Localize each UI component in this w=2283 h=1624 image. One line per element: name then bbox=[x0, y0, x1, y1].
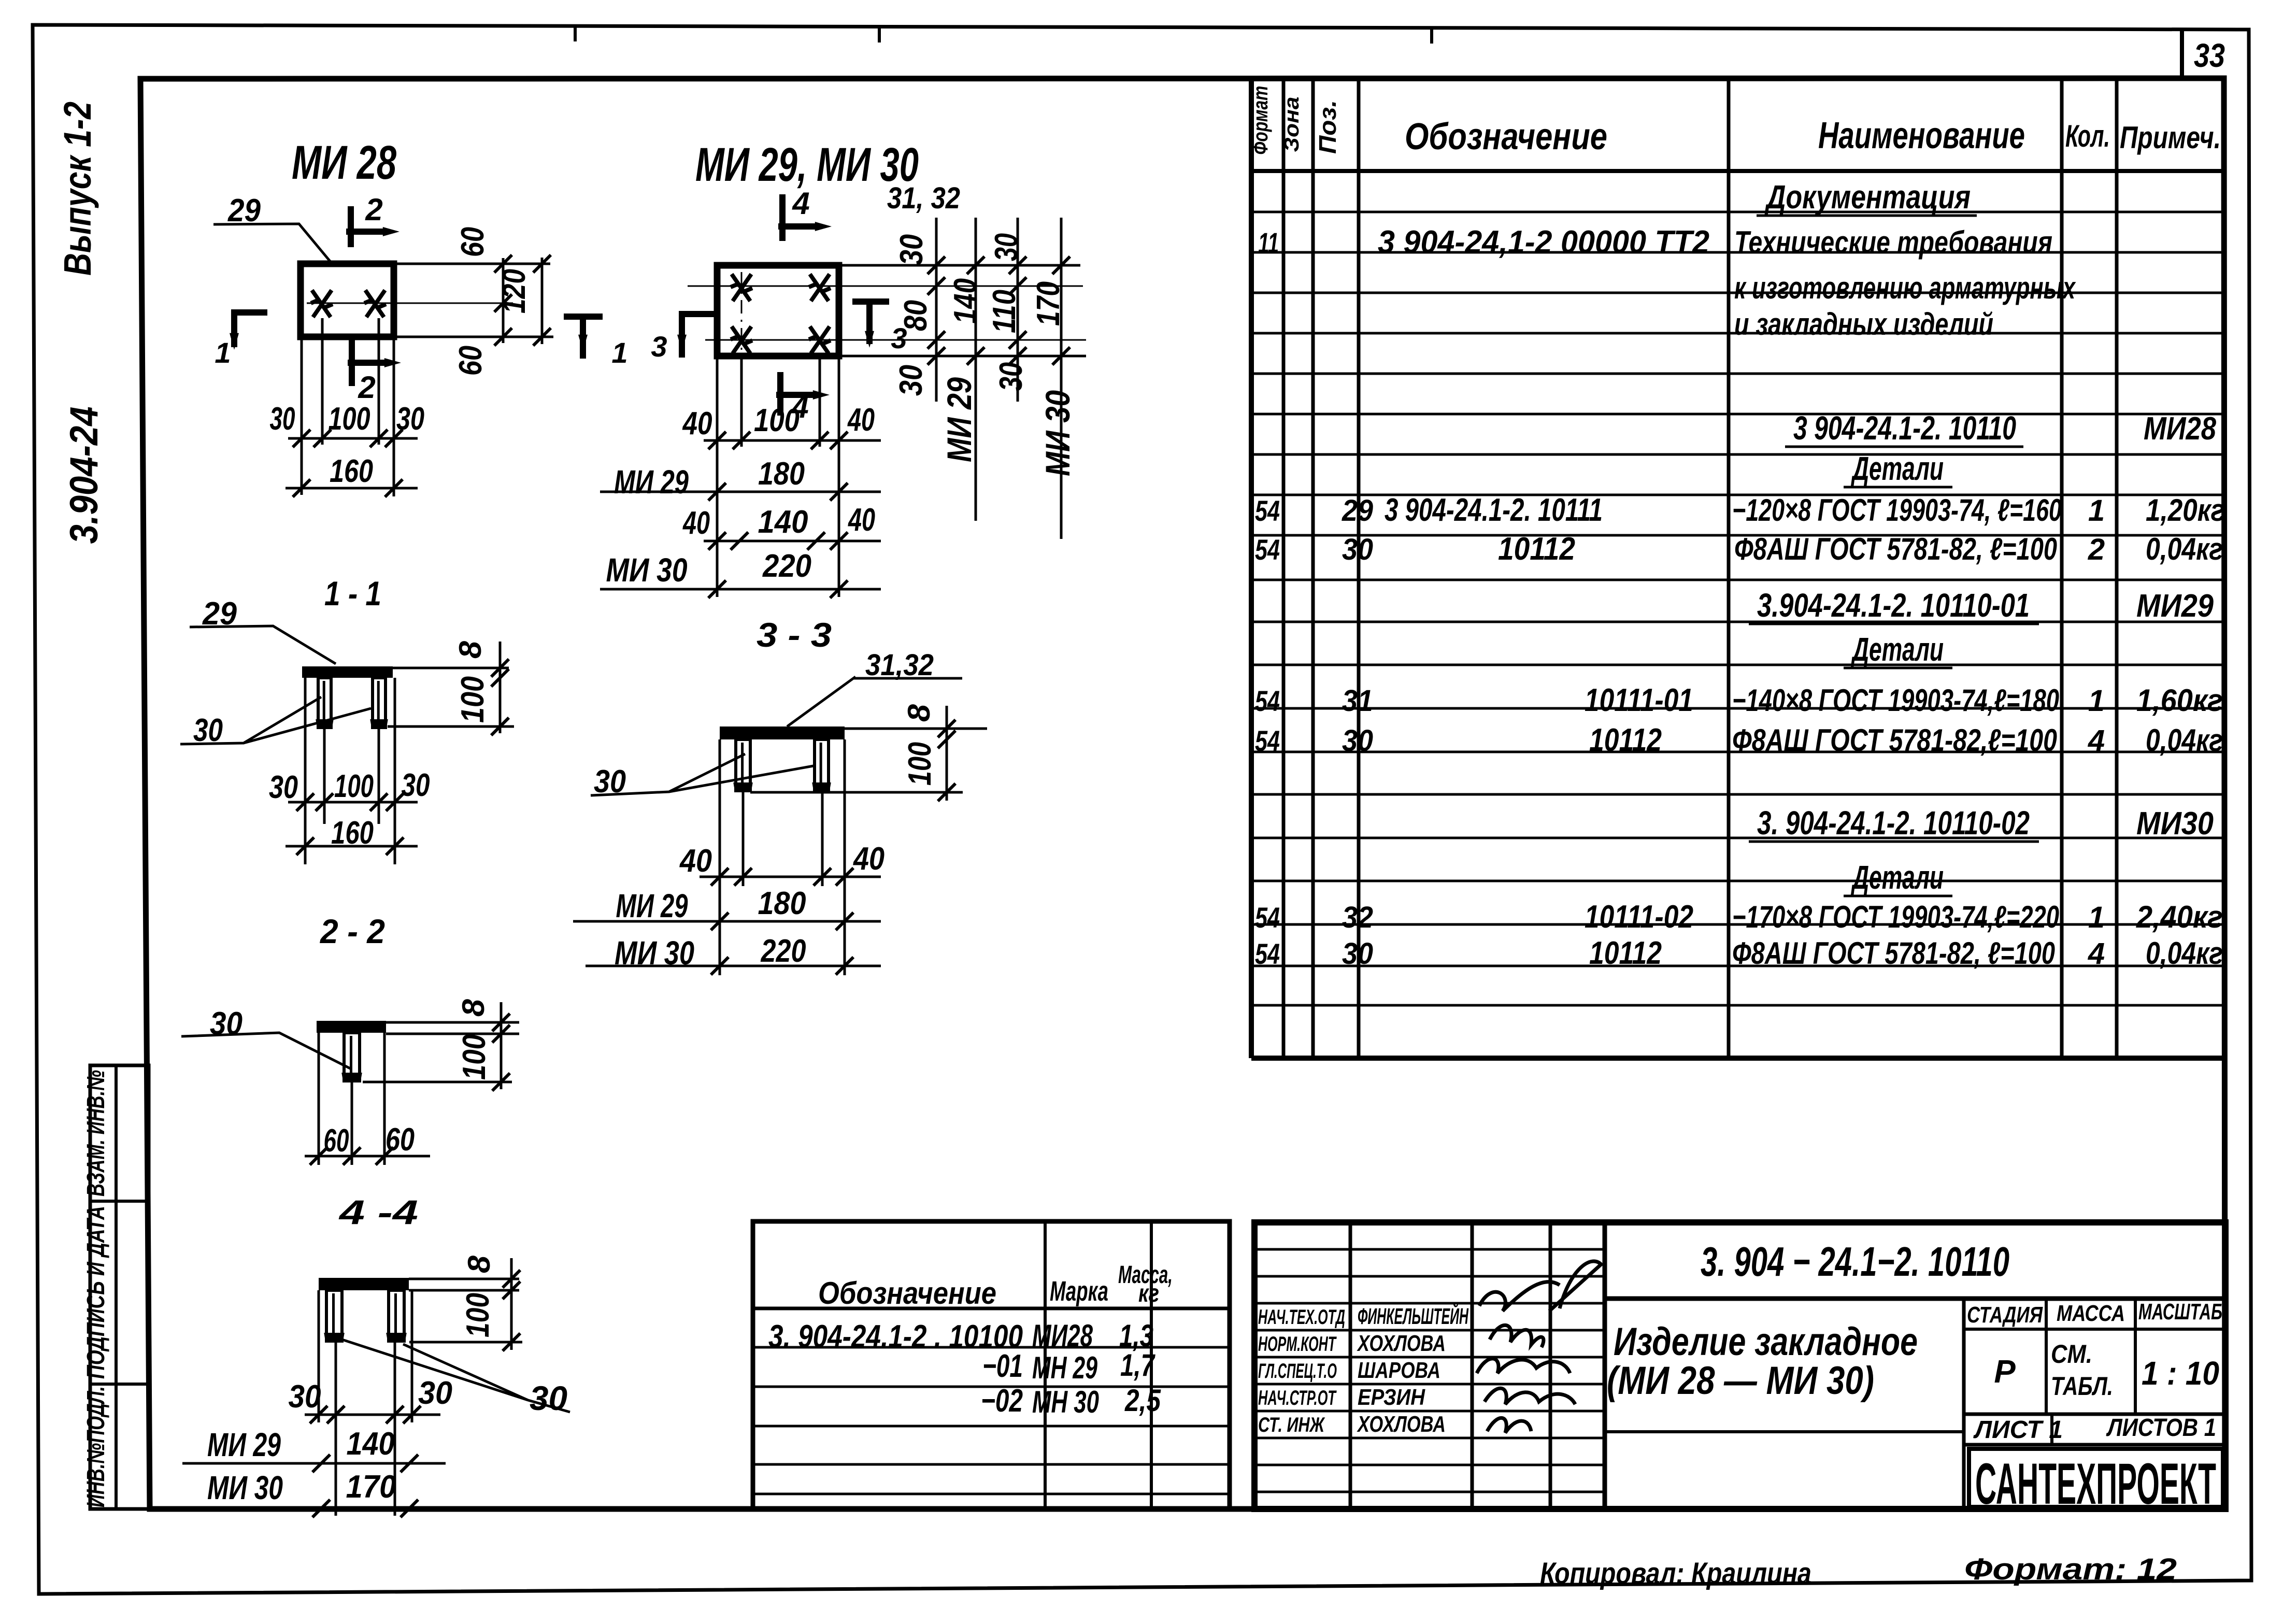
svg-text:2: 2 bbox=[358, 370, 375, 405]
1-1 left leg bbox=[318, 678, 331, 728]
4-4 leg bottom extension bbox=[409, 1341, 522, 1344]
left stamp boxes bbox=[90, 1065, 149, 1509]
section marker 1 left bbox=[231, 310, 237, 347]
svg-text:60: 60 bbox=[324, 1123, 349, 1159]
3-3 right leg bbox=[815, 739, 829, 791]
svg-text:30: 30 bbox=[1342, 724, 1373, 758]
svg-text:МИ29: МИ29 bbox=[2136, 588, 2214, 624]
svg-text:30: 30 bbox=[418, 1375, 452, 1411]
svg-text:10112: 10112 bbox=[1589, 722, 1662, 758]
svg-text:Формат: Формат bbox=[1249, 86, 1272, 155]
МИ29 anchor centerline vertical dashed bbox=[741, 272, 743, 363]
svg-text:МИ 30: МИ 30 bbox=[615, 934, 694, 972]
МИ28 dim 120 bbox=[541, 258, 544, 344]
svg-text:30: 30 bbox=[894, 234, 930, 265]
svg-text:Ф8АШ ГОСТ 5781-82, ℓ=100: Ф8АШ ГОСТ 5781-82, ℓ=100 bbox=[1734, 532, 2057, 566]
svg-text:МИ28: МИ28 bbox=[2144, 411, 2216, 447]
svg-text:30: 30 bbox=[989, 233, 1024, 261]
svg-text:Детали: Детали bbox=[1851, 859, 1944, 896]
svg-text:8: 8 bbox=[902, 704, 936, 722]
svg-text:Р: Р bbox=[1994, 1354, 2016, 1390]
title block verticals left part bbox=[1349, 1222, 1352, 1509]
svg-text:54: 54 bbox=[1255, 494, 1280, 527]
title block stadia columns bbox=[1962, 1299, 1966, 1509]
svg-text:Обозначение: Обозначение bbox=[818, 1276, 996, 1310]
svg-text:100: 100 bbox=[460, 1293, 496, 1337]
svg-text:−170×8 ГОСТ 19903-74,ℓ=220: −170×8 ГОСТ 19903-74,ℓ=220 bbox=[1732, 900, 2059, 934]
svg-text:НАЧ.ТЕХ.ОТД: НАЧ.ТЕХ.ОТД bbox=[1258, 1306, 1345, 1329]
svg-text:2,40кг: 2,40кг bbox=[2136, 900, 2223, 934]
1-1 dim row 160 bbox=[286, 845, 418, 848]
svg-text:СМ.: СМ. bbox=[2051, 1340, 2092, 1369]
svg-text:САНТЕХПРОЕКТ: САНТЕХПРОЕКТ bbox=[1975, 1451, 2216, 1516]
svg-text:40: 40 bbox=[682, 406, 712, 441]
sheet number box 33 bbox=[2180, 30, 2184, 79]
svg-text:100: 100 bbox=[902, 742, 938, 786]
svg-text:ФИНКЕЛЬШТЕЙН: ФИНКЕЛЬШТЕЙН bbox=[1358, 1303, 1469, 1329]
svg-text:МИ28: МИ28 bbox=[1032, 1318, 1093, 1353]
svg-text:Изделие закладное: Изделие закладное bbox=[1614, 1320, 1918, 1364]
МИ28 dim row 160 bbox=[286, 487, 418, 490]
title block list row bbox=[1964, 1413, 2225, 1416]
1-1 right leg bbox=[373, 678, 386, 728]
svg-text:30: 30 bbox=[893, 365, 929, 396]
section marker 4 bottom bbox=[777, 372, 783, 416]
2-2 leg bottom extension bbox=[363, 1081, 512, 1084]
4-4 dim 8 and 100 bbox=[510, 1258, 513, 1350]
svg-text:ГЛ.СПЕЦ.Т.О: ГЛ.СПЕЦ.Т.О bbox=[1258, 1360, 1337, 1383]
svg-text:4: 4 bbox=[792, 186, 809, 221]
МИ28 centerline bbox=[307, 303, 513, 304]
svg-text:2 - 2: 2 - 2 bbox=[319, 912, 385, 950]
svg-text:30: 30 bbox=[1342, 937, 1373, 971]
svg-text:140: 140 bbox=[948, 278, 983, 324]
svg-text:4 -4: 4 -4 bbox=[338, 1193, 418, 1231]
svg-text:40: 40 bbox=[682, 505, 710, 541]
1-1 dim row 30-100-30 bbox=[288, 801, 418, 804]
svg-text:Детали: Детали bbox=[1851, 450, 1944, 487]
svg-text:Выпуск 1-2: Выпуск 1-2 bbox=[56, 102, 99, 276]
3-3 dim row 40-40 bbox=[700, 876, 881, 878]
svg-text:3: 3 bbox=[651, 330, 667, 363]
1-1 plate top extension bbox=[393, 667, 509, 669]
svg-text:8: 8 bbox=[453, 640, 488, 659]
svg-text:1: 1 bbox=[215, 336, 231, 369]
svg-text:31,32: 31,32 bbox=[865, 648, 934, 682]
svg-text:30: 30 bbox=[270, 401, 295, 437]
svg-text:3. 904-24.1-2. 10110-02: 3. 904-24.1-2. 10110-02 bbox=[1757, 804, 2030, 842]
svg-text:МН 30: МН 30 bbox=[1032, 1385, 1099, 1419]
2-2 leg bbox=[344, 1033, 360, 1081]
svg-text:30: 30 bbox=[1342, 533, 1373, 566]
svg-text:8: 8 bbox=[456, 999, 491, 1017]
4-4 plate bbox=[319, 1278, 409, 1290]
svg-text:54: 54 bbox=[1255, 901, 1280, 934]
svg-text:(МИ 28 — МИ 30): (МИ 28 — МИ 30) bbox=[1607, 1359, 1874, 1403]
МИ29 centerline lower bbox=[705, 339, 1086, 341]
2-2 dim 8 and 100 bbox=[500, 1002, 503, 1089]
svg-text:Кол.: Кол. bbox=[2065, 119, 2110, 153]
svg-text:3 904-24.1-2. 10110: 3 904-24.1-2. 10110 bbox=[1793, 409, 2016, 447]
svg-text:МИ 29: МИ 29 bbox=[207, 1426, 281, 1463]
fold marks on top border bbox=[574, 25, 577, 41]
svg-text:3. 904 − 24.1−2. 10110: 3. 904 − 24.1−2. 10110 bbox=[1701, 1238, 2009, 1285]
svg-text:МИ 28: МИ 28 bbox=[292, 136, 397, 189]
МИ28 anchor symbol left bbox=[311, 290, 333, 317]
1-1 projections below bbox=[304, 678, 307, 864]
svg-text:40: 40 bbox=[847, 502, 875, 538]
svg-text:−02: −02 bbox=[981, 1383, 1023, 1419]
section marker 2 top bbox=[348, 206, 354, 247]
svg-text:30: 30 bbox=[530, 1379, 567, 1417]
4-4 left leg bbox=[326, 1290, 342, 1341]
svg-text:1: 1 bbox=[611, 336, 627, 369]
svg-text:Детали: Детали bbox=[1851, 631, 1944, 668]
svg-text:1,20кг: 1,20кг bbox=[2146, 493, 2225, 528]
section marker 1 right bbox=[580, 314, 586, 359]
section marker 4 top bbox=[779, 194, 786, 241]
spec table grid bbox=[1249, 78, 1254, 1058]
svg-text:8: 8 bbox=[462, 1255, 496, 1273]
svg-text:170: 170 bbox=[1031, 281, 1066, 326]
4-4 dim row МИ29 140 bbox=[182, 1462, 446, 1465]
svg-text:ТАБЛ.: ТАБЛ. bbox=[2051, 1372, 2113, 1401]
2-2 projections below bbox=[318, 1033, 320, 1165]
svg-text:Формат: 12: Формат: 12 bbox=[1964, 1552, 2177, 1586]
svg-text:140: 140 bbox=[758, 504, 808, 540]
svg-text:МИ 30: МИ 30 bbox=[1038, 390, 1077, 476]
svg-text:120: 120 bbox=[496, 269, 532, 314]
svg-text:−140×8 ГОСТ 19903-74,ℓ=180: −140×8 ГОСТ 19903-74,ℓ=180 bbox=[1732, 683, 2059, 718]
svg-text:170: 170 bbox=[346, 1469, 396, 1505]
svg-text:10111-02: 10111-02 bbox=[1585, 899, 1693, 935]
svg-text:180: 180 bbox=[758, 456, 805, 492]
3-3 plate top extension bbox=[845, 728, 987, 730]
МИ29 centerline upper bbox=[688, 286, 1083, 287]
1-1 dim 8 and 100 bbox=[499, 642, 502, 733]
svg-text:100: 100 bbox=[455, 676, 491, 723]
section marker 2 bottom bbox=[349, 338, 355, 386]
svg-text:31, 32: 31, 32 bbox=[887, 181, 960, 215]
svg-text:4: 4 bbox=[2088, 724, 2105, 758]
МИ29 dim row 180 bbox=[600, 491, 881, 493]
svg-text:ВЗАМ. ИНВ.№: ВЗАМ. ИНВ.№ bbox=[82, 1070, 110, 1196]
title block horizontals left part bbox=[1254, 1248, 1605, 1251]
4-4 projections below bbox=[318, 1290, 320, 1422]
section marker 3 right bbox=[852, 298, 889, 305]
4-4 plate extensions bbox=[409, 1278, 519, 1280]
МИ28 dim row 30-100-30 bbox=[288, 437, 418, 440]
3-3 plate bbox=[720, 726, 845, 739]
svg-text:0,04кг: 0,04кг bbox=[2146, 936, 2223, 971]
svg-text:Ф8АШ ГОСТ 5781-82,ℓ=100: Ф8АШ ГОСТ 5781-82,ℓ=100 bbox=[1732, 723, 2057, 758]
svg-text:ХОХЛОВА: ХОХЛОВА bbox=[1357, 1412, 1446, 1437]
svg-text:140: 140 bbox=[347, 1426, 395, 1462]
svg-text:10112: 10112 bbox=[1498, 531, 1575, 567]
3-3 dim row МИ29 180 bbox=[573, 920, 881, 923]
МИ30 dim row 40-140-40 bbox=[704, 540, 881, 543]
svg-text:МИ30: МИ30 bbox=[2136, 806, 2214, 842]
svg-text:180: 180 bbox=[758, 886, 806, 921]
svg-text:110: 110 bbox=[987, 290, 1022, 333]
svg-text:4: 4 bbox=[2088, 937, 2105, 971]
svg-text:40: 40 bbox=[847, 402, 875, 438]
svg-text:3 904-24.1-2. 10111: 3 904-24.1-2. 10111 bbox=[1385, 492, 1603, 528]
МИ29 plate rectangle bbox=[717, 265, 839, 356]
svg-text:30: 30 bbox=[396, 401, 424, 437]
МИ30 dim line C 30-110-30 bbox=[1017, 218, 1019, 402]
svg-text:1,60кг: 1,60кг bbox=[2136, 683, 2223, 718]
svg-text:СТАДИЯ: СТАДИЯ bbox=[1967, 1302, 2043, 1328]
1-1 leg bottom extension bbox=[388, 725, 514, 728]
2-2 plate extensions bbox=[386, 1021, 519, 1024]
svg-text:ИНВ.№ПОДЛ.: ИНВ.№ПОДЛ. bbox=[82, 1386, 110, 1507]
svg-text:Марка: Марка bbox=[1050, 1276, 1108, 1307]
МИ28 anchor symbol right bbox=[364, 290, 386, 317]
svg-text:1 - 1: 1 - 1 bbox=[324, 574, 381, 612]
svg-text:МИ 30: МИ 30 bbox=[606, 551, 688, 589]
svg-text:МИ 29: МИ 29 bbox=[616, 887, 688, 924]
svg-text:СТ. ИНЖ: СТ. ИНЖ bbox=[1258, 1414, 1325, 1436]
svg-text:2: 2 bbox=[365, 192, 382, 227]
svg-text:10111-01: 10111-01 bbox=[1585, 682, 1693, 718]
svg-text:Примеч.: Примеч. bbox=[2120, 120, 2221, 155]
svg-text:Ф8АШ ГОСТ 5781-82, ℓ=100: Ф8АШ ГОСТ 5781-82, ℓ=100 bbox=[1732, 936, 2055, 971]
svg-text:2: 2 bbox=[2088, 533, 2105, 566]
4-4 dim row МИ30 170 bbox=[182, 1507, 446, 1510]
svg-text:54: 54 bbox=[1255, 685, 1280, 717]
svg-text:0,04кг: 0,04кг bbox=[2146, 723, 2223, 758]
svg-text:100: 100 bbox=[329, 401, 370, 437]
svg-text:40: 40 bbox=[679, 843, 712, 879]
svg-text:30: 30 bbox=[402, 767, 430, 803]
svg-text:Копировал: Краилина: Копировал: Краилина bbox=[1540, 1557, 1811, 1590]
svg-text:100: 100 bbox=[334, 768, 374, 804]
МИ29 dim line A 30-80-30 bbox=[935, 218, 938, 402]
svg-text:МИ 29: МИ 29 bbox=[614, 463, 689, 501]
1-1 plate bbox=[302, 666, 393, 678]
svg-text:ЕРЗИН: ЕРЗИН bbox=[1358, 1385, 1425, 1410]
svg-text:1: 1 bbox=[2088, 494, 2105, 528]
svg-text:МИ 29, МИ 30: МИ 29, МИ 30 bbox=[695, 138, 919, 191]
svg-text:1: 1 bbox=[2088, 684, 2105, 718]
svg-text:кг: кг bbox=[1138, 1280, 1159, 1307]
3-3 projections below bbox=[719, 739, 721, 975]
svg-text:3 904-24,1-2 00000 ТТ2: 3 904-24,1-2 00000 ТТ2 bbox=[1378, 224, 1709, 260]
МИ29 anchor symbols bbox=[731, 274, 752, 301]
svg-text:220: 220 bbox=[762, 548, 811, 584]
svg-text:и закладных изделий: и закладных изделий bbox=[1734, 307, 1993, 341]
svg-text:80: 80 bbox=[898, 300, 934, 331]
2-2 dim row 60-60 bbox=[305, 1155, 430, 1158]
svg-text:54: 54 bbox=[1255, 533, 1280, 566]
svg-text:220: 220 bbox=[761, 933, 806, 969]
svg-text:Документация: Документация bbox=[1764, 178, 1971, 216]
svg-text:100: 100 bbox=[754, 403, 800, 438]
4-4 dim row 30-30 bbox=[305, 1414, 440, 1416]
svg-text:54: 54 bbox=[1255, 724, 1280, 757]
МИ28 projection lines bbox=[301, 337, 303, 495]
svg-text:10112: 10112 bbox=[1589, 935, 1662, 971]
marks table grid bbox=[753, 1221, 1230, 1509]
МИ28 plate rectangle bbox=[301, 264, 394, 337]
svg-text:НОРМ.КОНТ: НОРМ.КОНТ bbox=[1258, 1333, 1337, 1356]
svg-text:ЛИСТ 1: ЛИСТ 1 bbox=[1973, 1416, 2063, 1444]
svg-text:60: 60 bbox=[453, 346, 489, 376]
svg-text:Зона: Зона bbox=[1280, 97, 1303, 152]
svg-text:11: 11 bbox=[1258, 226, 1279, 259]
svg-text:32: 32 bbox=[1342, 901, 1373, 934]
svg-text:30: 30 bbox=[269, 770, 298, 805]
svg-text:Обозначение: Обозначение bbox=[1405, 116, 1607, 158]
svg-text:1 : 10: 1 : 10 bbox=[2142, 1355, 2219, 1392]
МИ28 dim 60 top bbox=[502, 258, 505, 311]
МИ29 projection lines below bbox=[716, 356, 719, 597]
svg-text:3.904-24: 3.904-24 bbox=[62, 407, 106, 544]
svg-text:1: 1 bbox=[2088, 901, 2105, 934]
svg-text:33: 33 bbox=[2194, 37, 2225, 74]
2-2 plate bbox=[317, 1021, 386, 1033]
svg-text:1,7: 1,7 bbox=[1120, 1348, 1155, 1383]
svg-text:Поз.: Поз. bbox=[1314, 100, 1341, 154]
svg-text:Технические требования: Технические требования bbox=[1734, 225, 2052, 260]
signatures bbox=[1477, 1261, 1601, 1433]
title block name cell bbox=[1605, 1430, 1964, 1433]
3-3 dim row МИ30 220 bbox=[586, 965, 881, 967]
title block outer bbox=[1254, 1222, 2225, 1509]
svg-text:31: 31 bbox=[1342, 684, 1373, 718]
svg-text:160: 160 bbox=[331, 815, 374, 851]
svg-text:3 - 3: 3 - 3 bbox=[757, 616, 832, 654]
svg-text:30: 30 bbox=[289, 1379, 321, 1415]
svg-text:2,5: 2,5 bbox=[1124, 1383, 1161, 1418]
svg-text:МН 29: МН 29 bbox=[1032, 1350, 1097, 1385]
svg-text:ШАРОВА: ШАРОВА bbox=[1358, 1358, 1440, 1383]
title block designation cell bbox=[1605, 1297, 2225, 1301]
МИ29 dim line B 140 bbox=[975, 218, 977, 521]
svg-text:Наименование: Наименование bbox=[1818, 115, 2025, 156]
svg-text:60: 60 bbox=[455, 227, 491, 257]
svg-text:30: 30 bbox=[993, 362, 1029, 391]
svg-text:МАССА: МАССА bbox=[2057, 1301, 2125, 1326]
svg-text:29: 29 bbox=[1342, 494, 1373, 528]
svg-text:ПОДПИСЬ И ДАТА: ПОДПИСЬ И ДАТА bbox=[82, 1206, 110, 1379]
МИ30 dim line D 170 bbox=[1060, 218, 1063, 539]
3-3 leg bottom extension bbox=[750, 791, 963, 794]
svg-text:−120×8 ГОСТ 19903-74, ℓ=160: −120×8 ГОСТ 19903-74, ℓ=160 bbox=[1732, 493, 2062, 528]
4-4 right leg bbox=[389, 1290, 404, 1341]
svg-text:МИ 29: МИ 29 bbox=[940, 377, 978, 462]
МИ28 bottom edge extension bbox=[395, 336, 553, 338]
3-3 dim 8 and 100 bbox=[946, 706, 948, 801]
svg-text:МИ 30: МИ 30 bbox=[207, 1469, 283, 1506]
МИ29 dim row 40-100-40 bbox=[704, 439, 881, 442]
svg-text:100: 100 bbox=[456, 1034, 492, 1080]
svg-text:60: 60 bbox=[386, 1122, 415, 1158]
svg-text:0,04кг: 0,04кг bbox=[2146, 532, 2223, 566]
3-3 left leg bbox=[736, 739, 750, 791]
МИ28 top edge extension bbox=[395, 263, 550, 265]
МИ29 bottom edge extension bbox=[840, 355, 1086, 358]
МИ28 dim 60 bottom bbox=[502, 301, 505, 343]
title block logo box САНТЕХПРОЕКТ bbox=[1964, 1443, 2225, 1447]
МИ29 top edge extension bbox=[840, 264, 1080, 267]
svg-text:НАЧ.СТР.ОТ: НАЧ.СТР.ОТ bbox=[1258, 1387, 1337, 1409]
svg-text:40: 40 bbox=[852, 841, 884, 877]
svg-text:ЛИСТОВ 1: ЛИСТОВ 1 bbox=[2106, 1414, 2216, 1442]
svg-text:160: 160 bbox=[330, 453, 373, 489]
svg-text:ХОХЛОВА: ХОХЛОВА bbox=[1357, 1331, 1446, 1356]
svg-text:к изготовлению арматурных: к изготовлению арматурных bbox=[1734, 270, 2076, 305]
svg-text:3.904-24.1-2. 10110-01: 3.904-24.1-2. 10110-01 bbox=[1757, 587, 2030, 624]
svg-text:54: 54 bbox=[1255, 937, 1280, 970]
МИ30 dim row 220 bbox=[600, 588, 881, 591]
svg-text:−01: −01 bbox=[982, 1348, 1023, 1384]
svg-text:МАСШТАБ: МАСШТАБ bbox=[2138, 1299, 2222, 1324]
